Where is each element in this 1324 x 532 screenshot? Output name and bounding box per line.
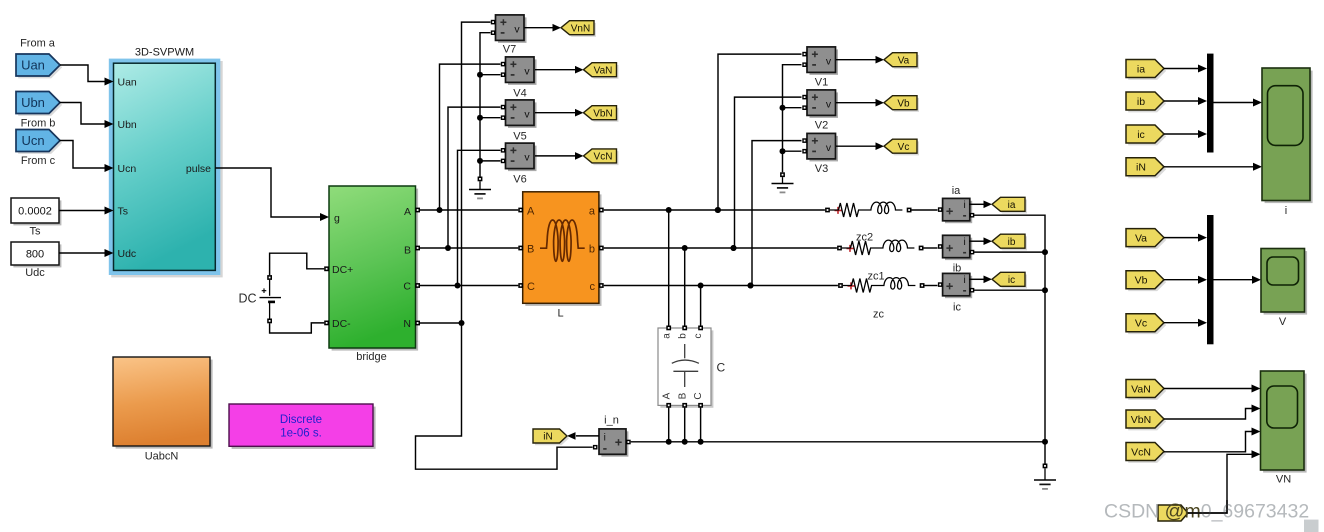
svg-text:B: B: [677, 392, 688, 399]
svg-text:Discrete: Discrete: [280, 414, 322, 426]
svg-text:VN: VN: [1276, 474, 1291, 486]
svg-text:ib: ib: [1008, 237, 1016, 248]
svg-text:Udc: Udc: [118, 248, 137, 260]
svg-text:V6: V6: [513, 173, 526, 185]
svg-text:C: C: [693, 392, 704, 399]
svg-text:VaN: VaN: [594, 65, 613, 76]
svg-text:iN: iN: [1136, 162, 1146, 174]
svg-text:VcN: VcN: [594, 152, 613, 163]
svg-text:CSDN @m0_69673432: CSDN @m0_69673432: [1104, 501, 1309, 523]
svg-text:ib: ib: [1137, 96, 1145, 108]
svg-text:Va: Va: [1135, 232, 1147, 244]
svg-text:V4: V4: [513, 87, 526, 99]
svg-text:c: c: [590, 281, 596, 293]
svg-text:1e-06 s.: 1e-06 s.: [280, 428, 322, 440]
svg-text:From c: From c: [21, 155, 56, 167]
svg-text:Ts: Ts: [30, 226, 42, 238]
svg-text:Va: Va: [898, 55, 910, 66]
svg-text:v: v: [826, 142, 832, 154]
svg-text:i: i: [963, 237, 965, 248]
svg-text:Vc: Vc: [1135, 318, 1147, 330]
svg-text:v: v: [524, 152, 530, 164]
svg-text:Ubn: Ubn: [118, 119, 137, 131]
svg-text:VbN: VbN: [593, 108, 612, 119]
svg-text:bridge: bridge: [356, 351, 387, 363]
svg-text:Uan: Uan: [21, 57, 45, 72]
svg-text:ic: ic: [1008, 275, 1015, 286]
svg-text:A: A: [404, 206, 411, 218]
svg-text:pulse: pulse: [186, 163, 211, 175]
svg-text:zc: zc: [873, 308, 885, 320]
svg-text:iN: iN: [543, 432, 552, 443]
svg-text:From b: From b: [21, 118, 56, 130]
svg-text:Ts: Ts: [118, 205, 129, 217]
svg-text:i: i: [963, 200, 965, 211]
svg-text:VnN: VnN: [571, 23, 590, 34]
svg-text:V2: V2: [815, 119, 828, 131]
svg-text:DC-: DC-: [332, 318, 351, 330]
svg-text:VaN: VaN: [1131, 383, 1151, 395]
svg-text:C: C: [717, 360, 726, 374]
svg-text:UabcN: UabcN: [145, 451, 179, 463]
svg-text:b: b: [589, 243, 595, 255]
svg-text:ic: ic: [953, 301, 961, 313]
svg-text:Ucn: Ucn: [118, 163, 137, 175]
svg-text:ia: ia: [1137, 63, 1145, 75]
svg-text:L: L: [557, 308, 563, 320]
svg-text:zc1: zc1: [867, 270, 884, 282]
svg-text:From a: From a: [20, 38, 56, 50]
svg-text:i: i: [604, 432, 606, 443]
svg-text:0.0002: 0.0002: [18, 206, 52, 218]
svg-text:DC+: DC+: [332, 264, 353, 276]
svg-text:3D-SVPWM: 3D-SVPWM: [135, 47, 194, 59]
svg-text:A: A: [527, 205, 535, 217]
svg-text:C: C: [403, 280, 411, 292]
svg-text:N: N: [403, 318, 411, 330]
svg-text:800: 800: [26, 249, 44, 261]
svg-text:i: i: [1285, 205, 1287, 217]
svg-text:g: g: [334, 212, 340, 224]
svg-text:v: v: [514, 24, 520, 36]
svg-text:C: C: [527, 281, 535, 293]
svg-text:a: a: [589, 205, 596, 217]
svg-text:v: v: [524, 66, 530, 78]
svg-text:ia: ia: [1008, 200, 1016, 211]
svg-text:Ucn: Ucn: [21, 133, 44, 148]
svg-text:zc2: zc2: [856, 231, 873, 243]
svg-text:v: v: [524, 109, 530, 121]
svg-text:V5: V5: [513, 130, 526, 142]
svg-text:DC: DC: [238, 291, 256, 305]
svg-text:a: a: [661, 333, 672, 339]
svg-text:i: i: [963, 275, 965, 286]
svg-text:V3: V3: [815, 163, 828, 175]
svg-text:v: v: [826, 56, 832, 68]
svg-text:B: B: [404, 244, 411, 256]
svg-text:ib: ib: [953, 262, 962, 274]
svg-text:V: V: [1279, 316, 1287, 328]
svg-text:ia: ia: [952, 185, 961, 197]
svg-text:Vb: Vb: [1135, 275, 1148, 287]
svg-text:Udc: Udc: [25, 267, 45, 279]
svg-text:c: c: [693, 334, 704, 339]
svg-text:V7: V7: [503, 43, 516, 55]
svg-text:Uan: Uan: [118, 76, 137, 88]
svg-text:Vc: Vc: [898, 142, 910, 153]
svg-text:b: b: [677, 333, 688, 339]
svg-text:Vb: Vb: [897, 98, 910, 109]
svg-text:v: v: [826, 99, 832, 111]
svg-text:Ubn: Ubn: [21, 95, 45, 110]
svg-text:V1: V1: [815, 76, 828, 88]
svg-text:ic: ic: [1137, 129, 1145, 141]
svg-text:i_n: i_n: [604, 415, 619, 427]
svg-text:B: B: [527, 243, 534, 255]
svg-text:A: A: [661, 392, 672, 399]
svg-text:VbN: VbN: [1131, 414, 1151, 426]
svg-text:VcN: VcN: [1131, 446, 1151, 458]
